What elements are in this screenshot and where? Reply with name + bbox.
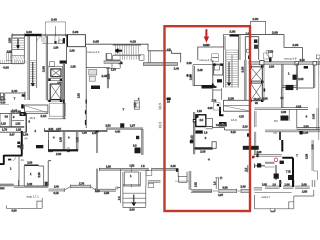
svg-text:2.08: 2.08 bbox=[56, 152, 62, 156]
svg-text:2.43: 2.43 bbox=[197, 68, 203, 72]
bottom window band middle unit bbox=[191, 190, 212, 193]
main wall right top bbox=[239, 34, 284, 36]
svg-text:2.36: 2.36 bbox=[311, 144, 315, 150]
svg-text:2.36: 2.36 bbox=[37, 172, 41, 178]
rooms x48-78 bbox=[49, 132, 78, 150]
room 2.96 (top) bbox=[67, 35, 85, 47]
small square room left of stair bbox=[214, 64, 223, 75]
svg-text:2.90: 2.90 bbox=[129, 208, 135, 212]
wall thick left of room bbox=[66, 35, 68, 47]
middle unit L wall lower-left bbox=[106, 128, 143, 129]
svg-text:2.68: 2.68 bbox=[186, 61, 192, 65]
svg-text:площ.3,6: площ.3,6 bbox=[87, 50, 100, 54]
svg-text:2.50: 2.50 bbox=[105, 123, 111, 127]
svg-text:2.48: 2.48 bbox=[240, 185, 246, 189]
wall band top of middle unit bbox=[104, 61, 120, 64]
right unit lobby walls bbox=[282, 65, 283, 88]
stair S1 rails bbox=[12, 35, 24, 64]
column above band bbox=[215, 178, 219, 189]
svg-text:3.65: 3.65 bbox=[93, 40, 99, 44]
left rooms walls bbox=[0, 114, 24, 127]
double wall line bbox=[0, 127, 24, 128]
svg-text:1.92: 1.92 bbox=[15, 123, 20, 126]
svg-text:1.98: 1.98 bbox=[106, 165, 111, 168]
stair treads bbox=[29, 60, 37, 88]
svg-text:1.96: 1.96 bbox=[284, 183, 290, 187]
svg-text:3.0: 3.0 bbox=[133, 144, 137, 148]
middle unit left wall bbox=[107, 68, 108, 88]
svg-text:3.18: 3.18 bbox=[53, 191, 59, 195]
svg-text:2.40: 2.40 bbox=[51, 18, 57, 22]
wall drop to bottom band bbox=[189, 171, 191, 190]
svg-text:2.48: 2.48 bbox=[27, 182, 33, 186]
svg-text:3.06: 3.06 bbox=[208, 107, 213, 110]
svg-text:2.98: 2.98 bbox=[272, 31, 278, 35]
window band gray fills bbox=[14, 186, 49, 188]
bathroom complex middle bbox=[196, 115, 206, 127]
wall: y44 from room to middle bbox=[85, 43, 148, 45]
svg-text:4.97: 4.97 bbox=[218, 193, 224, 197]
svg-text:2.23: 2.23 bbox=[78, 93, 81, 98]
svg-text:1 В: 1 В bbox=[141, 165, 145, 168]
svg-text:4.40: 4.40 bbox=[115, 130, 121, 134]
bathroom right bbox=[281, 116, 289, 121]
door marks in wall y160 bbox=[8, 159, 11, 161]
wall band y130.8 bbox=[45, 131, 108, 132]
terrace rect middle unit bbox=[224, 100, 250, 111]
svg-text:2.28: 2.28 bbox=[95, 190, 100, 193]
terrace rect (long) bbox=[25, 105, 48, 113]
svg-text:3.63: 3.63 bbox=[241, 66, 245, 72]
thick corner bbox=[21, 104, 24, 108]
svg-text:1.52: 1.52 bbox=[133, 102, 137, 108]
svg-text:площ.4,8: площ.4,8 bbox=[284, 57, 297, 61]
red arrow bbox=[204, 29, 210, 43]
wall left of core bbox=[212, 60, 214, 100]
svg-text:2.68: 2.68 bbox=[228, 97, 234, 101]
room top center-right (2.68) bbox=[223, 35, 240, 88]
wall vertical right of rooms bbox=[25, 113, 27, 132]
elevator shaft E1 top bbox=[48, 67, 63, 79]
black band below rooms bbox=[48, 149, 78, 151]
svg-text:2.18: 2.18 bbox=[268, 50, 274, 54]
svg-text:2.43: 2.43 bbox=[311, 113, 315, 119]
svg-text:3.98: 3.98 bbox=[222, 185, 228, 189]
svg-text:7 Ж: 7 Ж bbox=[286, 170, 291, 174]
svg-text:1.76: 1.76 bbox=[2, 128, 8, 132]
column small bbox=[134, 101, 139, 109]
stair S1 diagonal hatch under bbox=[13, 56, 27, 64]
stair: top middle run bbox=[113, 45, 141, 55]
wall vertical right of red bbox=[245, 37, 258, 60]
svg-text:1.98: 1.98 bbox=[69, 49, 75, 53]
svg-text:2.40: 2.40 bbox=[174, 67, 180, 71]
svg-text:площ.4,7: площ.4,7 bbox=[199, 58, 212, 62]
balcony rails left of thick wall bbox=[265, 162, 275, 167]
svg-text:1.64: 1.64 bbox=[23, 132, 29, 136]
bottom outline right unit bbox=[255, 190, 314, 209]
room top (kitchen) bbox=[193, 65, 215, 86]
svg-text:4.97: 4.97 bbox=[56, 127, 62, 131]
svg-text:2.60: 2.60 bbox=[252, 17, 258, 21]
svg-text:0.98: 0.98 bbox=[7, 51, 12, 54]
svg-text:2.08: 2.08 bbox=[301, 183, 307, 187]
svg-text:2.78: 2.78 bbox=[79, 181, 85, 185]
balcony 2.60 bbox=[251, 21, 266, 34]
wall: top-left stair enclosure bbox=[12, 35, 27, 64]
svg-text:асф.17: асф.17 bbox=[261, 195, 270, 199]
stair arrow bbox=[31, 62, 34, 86]
svg-text:4.90: 4.90 bbox=[26, 30, 32, 34]
right unit top wall band bbox=[249, 62, 260, 65]
balcony divider bbox=[54, 26, 56, 35]
svg-text:4.8: 4.8 bbox=[167, 48, 171, 52]
dark jamb left of closet bbox=[176, 168, 179, 172]
svg-text:П: П bbox=[220, 176, 222, 180]
svg-text:2.10: 2.10 bbox=[40, 114, 46, 118]
svg-text:П2: П2 bbox=[273, 131, 277, 135]
door blocks above bbox=[36, 145, 43, 148]
svg-text:16,9: 16,9 bbox=[231, 118, 237, 122]
thick walls lower right bbox=[282, 140, 293, 187]
stair S2: far-left lower run bbox=[6, 53, 12, 61]
svg-text:16,9: 16,9 bbox=[158, 122, 162, 129]
room walls bbox=[18, 156, 20, 186]
closet box bbox=[178, 172, 187, 183]
wall right of stair / core bbox=[245, 60, 246, 100]
lobby door ticks bbox=[63, 100, 65, 104]
far right edge structures bbox=[316, 55, 320, 75]
svg-text:2.48: 2.48 bbox=[170, 164, 176, 168]
svg-text:1.08: 1.08 bbox=[211, 100, 216, 103]
corner right bbox=[45, 128, 61, 131]
svg-text:1.97: 1.97 bbox=[130, 124, 136, 128]
right unit bottom band bbox=[265, 186, 280, 189]
landing side boxes bbox=[106, 54, 112, 60]
svg-text:2.96: 2.96 bbox=[269, 65, 275, 69]
svg-text:0.98 0.98: 0.98 0.98 bbox=[216, 123, 227, 127]
svg-text:3.02: 3.02 bbox=[48, 128, 53, 131]
svg-text:1.98: 1.98 bbox=[70, 65, 76, 69]
window band right of red line low bbox=[254, 188, 262, 191]
fixtures below top wall left bbox=[37, 37, 64, 44]
lower flight bbox=[120, 56, 139, 60]
svg-text:2.6: 2.6 bbox=[199, 118, 203, 122]
red highlight box bbox=[165, 26, 251, 211]
wall below bathroom bbox=[194, 112, 195, 154]
svg-text:асф.17,1: асф.17,1 bbox=[26, 194, 39, 198]
svg-text:2.43: 2.43 bbox=[76, 137, 79, 142]
stair: right core vertical run bbox=[226, 50, 238, 88]
svg-text:1.0: 1.0 bbox=[117, 196, 121, 200]
svg-text:2.08: 2.08 bbox=[104, 191, 110, 195]
stepped terrace with arrow bbox=[123, 186, 146, 207]
svg-text:6.60: 6.60 bbox=[11, 209, 17, 213]
elevator E4 bbox=[250, 83, 262, 101]
bottom terrace left bbox=[6, 198, 42, 208]
svg-text:3.07: 3.07 bbox=[9, 132, 15, 136]
svg-text:1.18: 1.18 bbox=[1, 123, 6, 126]
svg-text:2.62: 2.62 bbox=[195, 182, 198, 187]
svg-text:1.52: 1.52 bbox=[129, 164, 134, 167]
svg-text:2.50: 2.50 bbox=[303, 124, 309, 128]
corridor lobby walls bbox=[63, 47, 86, 128]
svg-text:3.98: 3.98 bbox=[204, 43, 210, 47]
elevator shaft E2 bottom bbox=[48, 81, 63, 102]
svg-text:П2: П2 bbox=[274, 119, 278, 123]
svg-text:2.05: 2.05 bbox=[298, 77, 304, 81]
svg-text:4.18: 4.18 bbox=[230, 130, 236, 134]
svg-text:1.92: 1.92 bbox=[16, 128, 22, 132]
svg-text:2.40: 2.40 bbox=[54, 186, 59, 189]
right balcony rail far right bbox=[312, 140, 318, 180]
small rooms top-left of middle unit bbox=[106, 60, 120, 68]
svg-text:2.40: 2.40 bbox=[11, 89, 17, 93]
black block next to red line bottom bbox=[167, 98, 171, 101]
dim ticks on top wall bbox=[13, 33, 66, 37]
gray window band left bbox=[49, 189, 66, 191]
black band across red line right bbox=[243, 146, 259, 150]
wall: elevator core left wall bbox=[46, 36, 47, 100]
svg-text:4.18: 4.18 bbox=[296, 105, 302, 109]
svg-text:0.44: 0.44 bbox=[0, 102, 5, 105]
svg-text:2.3: 2.3 bbox=[244, 167, 248, 171]
window band bbox=[14, 186, 49, 188]
svg-text:2.43: 2.43 bbox=[60, 137, 63, 142]
white box end of band bbox=[212, 142, 216, 149]
balcony 2.40 top bbox=[45, 22, 65, 35]
left wing room below stairs bbox=[5, 93, 25, 100]
stair S1: top-left flight, horizontal treads bbox=[12, 38, 24, 50]
svg-text:3.63: 3.63 bbox=[42, 66, 46, 72]
room above kitchen bbox=[197, 47, 223, 60]
svg-text:1.98: 1.98 bbox=[82, 132, 87, 135]
shaft right of room bbox=[48, 161, 51, 187]
horizontal black band crossing red line bbox=[194, 147, 213, 149]
dark line right of red bottom bbox=[255, 164, 266, 169]
wall bbox=[0, 63, 24, 65]
svg-text:2.08: 2.08 bbox=[303, 131, 309, 135]
svg-text:4.18: 4.18 bbox=[130, 40, 136, 44]
porch room below left unit bbox=[119, 169, 121, 203]
svg-text:2.08: 2.08 bbox=[281, 110, 287, 114]
dark band fixtures bbox=[91, 86, 100, 90]
svg-text:1.98: 1.98 bbox=[197, 110, 202, 113]
wall: thick top poche bbox=[25, 34, 41, 36]
svg-text:2.08: 2.08 bbox=[200, 150, 206, 154]
thick corner left of terrace bbox=[220, 107, 224, 116]
stair S1 arrow bbox=[17, 39, 20, 48]
wall step down right bbox=[148, 44, 181, 62]
svg-text:2.05: 2.05 bbox=[302, 189, 308, 193]
svg-text:2.36: 2.36 bbox=[305, 153, 309, 159]
band y169 with gap bbox=[99, 169, 177, 171]
svg-text:2.96: 2.96 bbox=[72, 30, 78, 34]
thick stepped wall bbox=[0, 131, 23, 164]
svg-text:2.68: 2.68 bbox=[229, 30, 235, 34]
svg-text:4.90: 4.90 bbox=[3, 66, 9, 70]
elevator E3 bbox=[250, 67, 262, 81]
machine boxes above E1 bbox=[50, 62, 55, 67]
right unit mid walls bbox=[281, 108, 308, 110]
stair: left main vertical run bbox=[28, 36, 37, 100]
right unit fixtures under wall bbox=[266, 51, 272, 59]
svg-text:2.98: 2.98 bbox=[292, 43, 298, 47]
dark block with door bbox=[20, 112, 26, 116]
svg-text:16,9: 16,9 bbox=[158, 103, 162, 110]
svg-text:2.98: 2.98 bbox=[27, 161, 33, 165]
dark blocks top right of core bbox=[260, 61, 264, 65]
svg-text:2.08: 2.08 bbox=[107, 73, 111, 79]
svg-text:2.10: 2.10 bbox=[242, 124, 248, 128]
stair S3: bottom hatch band bbox=[0, 60, 24, 63]
room right of lobby walls bbox=[86, 67, 110, 69]
wall: main top wall left unit bbox=[13, 34, 68, 36]
svg-text:3.98: 3.98 bbox=[257, 151, 262, 154]
svg-text:4.75: 4.75 bbox=[239, 116, 244, 119]
svg-text:2.96: 2.96 bbox=[299, 58, 305, 62]
svg-text:16,9: 16,9 bbox=[29, 116, 35, 120]
wall down/step bbox=[284, 35, 303, 62]
balcony rail x97 bbox=[96, 133, 97, 189]
svg-text:2.56: 2.56 bbox=[8, 37, 12, 43]
panel blocks left of wall bbox=[17, 142, 20, 145]
bottom wall band right unit bbox=[265, 130, 320, 132]
svg-text:1.97: 1.97 bbox=[111, 68, 117, 72]
svg-text:1.80: 1.80 bbox=[53, 46, 58, 49]
